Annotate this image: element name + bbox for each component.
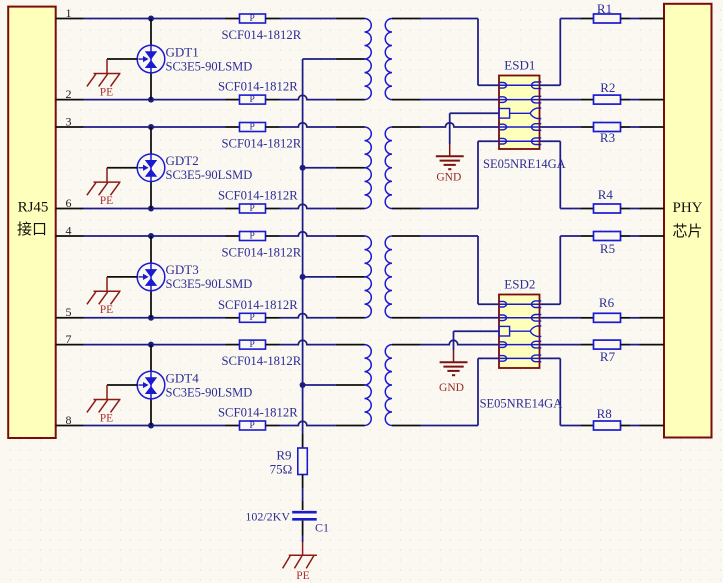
fuse F1 SCF014-1812R — [226, 18, 240, 20]
ESD1 pin 2 — [499, 99, 540, 101]
fuse F6 SCF014-1812R — [226, 317, 240, 319]
GDT arrow — [138, 276, 143, 278]
wire fuse to transformer — [280, 95, 336, 99]
wire fuse to transformer — [280, 421, 336, 425]
wire R9 to C1 — [302, 475, 304, 489]
wire T4 secondary bottom to ESD2 pin5 — [421, 425, 478, 427]
resistor R4 — [581, 208, 594, 210]
fuse F5 SCF014-1812R — [226, 235, 240, 237]
center tap wire T3 — [303, 276, 336, 278]
svg-text:SCF014-1812R: SCF014-1812R — [218, 406, 298, 420]
svg-text:P: P — [250, 122, 255, 132]
svg-text:SC3E5-90LSMD: SC3E5-90LSMD — [166, 277, 253, 291]
junction node row 8 — [148, 423, 154, 429]
svg-text:GDT2: GDT2 — [166, 153, 199, 168]
ESD protection IC ESD2 SE05NRE14GA — [499, 295, 540, 369]
junction node row 1 — [148, 16, 154, 22]
svg-text:SCF014-1812R: SCF014-1812R — [218, 189, 298, 203]
wire fuse to transformer — [280, 123, 336, 127]
svg-text:SCF014-1812R: SCF014-1812R — [222, 245, 302, 259]
svg-text:R5: R5 — [600, 241, 615, 256]
svg-text:1: 1 — [66, 6, 72, 20]
svg-text:P: P — [250, 231, 255, 241]
resistor R9 — [298, 448, 308, 475]
wire fuse to transformer — [280, 313, 336, 317]
ground GND1 symbol — [449, 144, 451, 156]
junction node center tap — [300, 274, 306, 280]
junction node row 7 — [148, 342, 154, 348]
svg-text:SCF014-1812R: SCF014-1812R — [218, 80, 298, 94]
wire RJ45 pin 8 row — [56, 425, 84, 427]
svg-text:R9: R9 — [276, 447, 291, 462]
svg-text:SCF014-1812R: SCF014-1812R — [222, 354, 302, 368]
fuse F4 SCF014-1812R — [226, 208, 240, 210]
wire fuse to transformer — [280, 232, 336, 236]
wire RJ45 pin 7 row — [56, 344, 84, 346]
svg-text:7: 7 — [66, 332, 72, 346]
svg-text:SE05NRE14GA: SE05NRE14GA — [480, 397, 563, 411]
svg-text:P: P — [250, 95, 255, 105]
wire fuse to transformer — [280, 340, 336, 344]
transformer T2 primary winding — [336, 126, 365, 128]
wire RJ45 pin 3 row — [56, 126, 84, 128]
PE earth symbol group 1 — [107, 58, 137, 60]
svg-text:SCF014-1812R: SCF014-1812R — [222, 136, 302, 150]
gas discharge tube GDT2 — [150, 127, 152, 154]
wire ESD2 pin1 right to R5 — [540, 303, 561, 305]
resistor R6 — [581, 317, 594, 319]
wire T1 secondary bottom to ESD1 pin2 — [421, 99, 499, 101]
svg-text:P: P — [250, 421, 255, 431]
ESD1 pin 5 — [499, 140, 540, 142]
ESD2 pin 2 — [499, 317, 540, 319]
GDT arrow — [138, 384, 143, 386]
wire T3 secondary top to ESD2 pin1 — [421, 235, 478, 237]
fuse F8 SCF014-1812R — [226, 425, 240, 427]
wire T1 secondary top to ESD1 pin1 — [421, 18, 478, 20]
svg-text:R8: R8 — [597, 406, 612, 421]
wire T2 secondary bottom to ESD1 pin5 — [421, 208, 478, 210]
svg-text:P: P — [250, 340, 255, 350]
svg-text:5: 5 — [66, 305, 72, 319]
junction node row 4 — [148, 233, 154, 239]
svg-text:SC3E5-90LSMD: SC3E5-90LSMD — [166, 168, 253, 182]
transformer T1 secondary winding — [385, 19, 392, 100]
wire RJ45 pin 2 row — [56, 99, 84, 101]
svg-text:SE05NRE14GA: SE05NRE14GA — [483, 157, 566, 171]
junction node center tap — [300, 165, 306, 171]
wire C1 to PE — [302, 521, 304, 536]
svg-text:6: 6 — [66, 196, 72, 210]
RJ45 connector block — [8, 7, 56, 438]
resistor R5 — [581, 235, 594, 237]
svg-text:C1: C1 — [315, 521, 329, 535]
gas discharge tube GDT1 — [150, 19, 152, 46]
wire RJ45 pin 1 row — [56, 18, 84, 20]
svg-text:PE: PE — [100, 304, 113, 316]
junction node row 3 — [148, 124, 154, 130]
wire ESD1 pin4 right to R3 — [540, 126, 582, 128]
ESD2 pin 4 — [499, 344, 540, 346]
svg-text:8: 8 — [66, 413, 72, 427]
transformer T3 secondary winding — [385, 236, 392, 318]
junction node row 5 — [148, 315, 154, 321]
ESD2 pin 5 — [499, 357, 540, 359]
GDT arrow — [138, 58, 143, 60]
svg-text:P: P — [250, 14, 255, 24]
svg-text:102/2KV: 102/2KV — [245, 510, 290, 524]
svg-text:PE: PE — [296, 570, 309, 582]
resistor R2 — [581, 99, 594, 101]
center tap bus vertical wire — [302, 59, 304, 434]
wire ESD2 pin4 right to R7 — [540, 344, 582, 346]
wire fuse to transformer — [280, 18, 336, 20]
wire ESD1 pin3 to GND — [450, 112, 499, 114]
wire RJ45 pin 4 row — [56, 235, 84, 237]
resistor R1 — [581, 18, 594, 20]
gas discharge tube GDT4 — [150, 345, 152, 372]
GDT arrow — [138, 167, 143, 169]
svg-text:R4: R4 — [598, 187, 614, 202]
ESD protection IC ESD1 SE05NRE14GA — [499, 76, 540, 150]
transformer T2 secondary winding — [385, 127, 392, 208]
bus stub to R9 — [302, 434, 304, 448]
svg-text:RJ45: RJ45 — [18, 200, 49, 216]
svg-text:75Ω: 75Ω — [270, 461, 293, 476]
wire ESD2 pin2 right to R6 — [540, 317, 582, 319]
wire T2 secondary top to ESD1 pin4 — [421, 123, 499, 127]
transformer T4 secondary winding — [385, 345, 392, 426]
ESD2 pin 1 — [499, 303, 540, 305]
svg-text:GDT3: GDT3 — [166, 262, 199, 277]
svg-text:GND: GND — [439, 382, 464, 394]
ESD1 pin 1 — [499, 84, 540, 86]
wire ESD1 pin1 right to R1 — [540, 84, 561, 86]
svg-text:PE: PE — [100, 86, 113, 98]
capacitor C1 — [292, 511, 317, 514]
wire RJ45 pin 6 row — [56, 208, 84, 210]
resistor R8 — [581, 425, 594, 427]
fuse F2 SCF014-1812R — [226, 99, 240, 101]
center tap wire T4 — [303, 384, 336, 386]
svg-text:P: P — [250, 204, 255, 214]
svg-text:接口: 接口 — [17, 221, 47, 238]
center tap wire T1 — [303, 58, 336, 60]
wire fuse to transformer — [280, 204, 336, 208]
svg-text:R1: R1 — [597, 1, 612, 16]
svg-text:ESD1: ESD1 — [504, 58, 535, 73]
fuse F7 SCF014-1812R — [226, 344, 240, 346]
wire T3 secondary bottom to ESD2 pin2 — [421, 317, 499, 319]
transformer T3 primary winding — [336, 235, 365, 237]
svg-text:P: P — [250, 313, 255, 323]
svg-text:PE: PE — [100, 195, 113, 207]
junction node row 6 — [148, 206, 154, 212]
svg-text:ESD2: ESD2 — [504, 277, 535, 292]
svg-text:SC3E5-90LSMD: SC3E5-90LSMD — [166, 59, 253, 73]
svg-text:SCF014-1812R: SCF014-1812R — [218, 298, 298, 312]
svg-text:PHY: PHY — [672, 200, 702, 216]
wire T4 secondary top to ESD2 pin4 — [421, 340, 499, 344]
wire ESD2 pin3 to GND — [454, 330, 500, 332]
transformer T1 primary winding — [336, 18, 365, 20]
PE earth symbol group 4 — [107, 384, 137, 386]
PE earth symbol bottom — [302, 542, 304, 555]
svg-text:PE: PE — [100, 412, 113, 424]
ESD1 pin 3 — [499, 109, 510, 119]
ESD1 pin 4 — [499, 126, 540, 128]
svg-text:GND: GND — [436, 172, 461, 184]
wire ESD1 pin2 right to R2 — [540, 99, 582, 101]
svg-text:R7: R7 — [600, 349, 616, 364]
svg-text:2: 2 — [66, 87, 72, 101]
svg-text:芯片: 芯片 — [672, 223, 702, 240]
resistor R3 — [581, 126, 594, 128]
fuse F3 SCF014-1812R — [226, 126, 240, 128]
svg-text:SCF014-1812R: SCF014-1812R — [222, 28, 302, 42]
gas discharge tube GDT3 — [150, 236, 152, 263]
PE earth symbol group 3 — [107, 276, 137, 278]
ground GND2 symbol — [453, 350, 455, 362]
svg-text:4: 4 — [66, 223, 72, 237]
svg-text:R6: R6 — [599, 295, 615, 310]
PHY chip block — [664, 4, 712, 438]
wire ESD2 pin5 right to R8 — [540, 357, 561, 359]
svg-text:GDT4: GDT4 — [166, 370, 200, 385]
svg-text:R3: R3 — [600, 130, 615, 145]
svg-text:SC3E5-90LSMD: SC3E5-90LSMD — [166, 385, 253, 399]
svg-text:R2: R2 — [600, 80, 615, 95]
wire RJ45 pin 5 row — [56, 317, 84, 319]
junction node center tap — [300, 382, 306, 388]
center tap wire T2 — [303, 167, 336, 169]
wire ESD1 pin5 right to R4 — [540, 140, 561, 142]
svg-text:3: 3 — [66, 114, 72, 128]
transformer T4 primary winding — [336, 344, 365, 346]
ESD2 pin 3 — [499, 326, 510, 336]
junction node row 2 — [148, 97, 154, 103]
svg-text:GDT1: GDT1 — [166, 44, 199, 59]
PE earth symbol group 2 — [107, 167, 137, 169]
resistor R7 — [581, 344, 594, 346]
